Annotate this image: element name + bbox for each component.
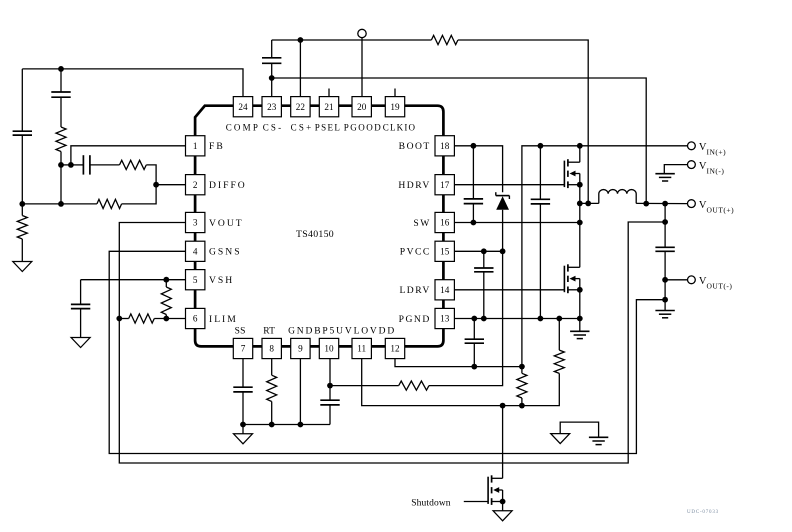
- wire VOUT node down: [664, 204, 666, 248]
- svg-text:PVCC: PVCC: [400, 247, 431, 258]
- junction gnd bus SS (243,424.5): [240, 422, 246, 428]
- svg-text:21: 21: [324, 102, 334, 112]
- pin 7 box: [233, 338, 252, 358]
- junction PGND/R-uvlo2 (559.3,318.5): [556, 316, 562, 322]
- svg-text:11: 11: [357, 344, 366, 354]
- junction PVCC/C-pvcc (483.8,251.3): [481, 248, 487, 254]
- wire CS+ net A horizontal: [272, 39, 432, 41]
- svg-text:12: 12: [390, 344, 400, 354]
- pin 24 box: [233, 97, 252, 117]
- junction VOUT(-) (665.1,279.8): [662, 277, 668, 283]
- pin 20 box: [352, 97, 371, 117]
- pin 14 box: [435, 280, 454, 300]
- inductor L1: [599, 190, 636, 204]
- svg-text:LDRV: LDRV: [399, 285, 430, 296]
- wire net A to SW node via right descent: [458, 40, 588, 203]
- resistor R-vsh-ilim: [161, 280, 171, 319]
- IC U1 TS40150 body outline: [195, 106, 443, 347]
- junction gnd bus GND (300.4,424.5): [298, 422, 304, 428]
- wire pin23 CS- stub: [271, 78, 273, 97]
- svg-text:PGOOD: PGOOD: [344, 122, 383, 132]
- wire BOOT pin18 right then down to diode: [454, 146, 502, 192]
- terminal VIN(-): [688, 161, 696, 169]
- ground arrow of tie: [551, 434, 570, 444]
- pin 6 box: [186, 308, 205, 328]
- wire LDRV pin14 to Q2 gate: [454, 289, 564, 291]
- wire pin22 CS+ stub: [299, 40, 301, 97]
- svg-text:COMP: COMP: [226, 122, 260, 132]
- junction at (22.3,203.9): [19, 201, 25, 207]
- wire Q2 source down to PGND: [579, 290, 581, 319]
- wire Q1 source down to SW node: [579, 185, 581, 223]
- wire COMP pin24 up and left to compensation network: [22, 69, 243, 97]
- junction VDD/C-vdd (474.3,366.6): [471, 364, 477, 370]
- wire VDD pin12 down and right: [395, 358, 522, 366]
- junction ILIM (166.3,318.5): [163, 316, 169, 322]
- junction PGND/C-pvcc (483.8,318.5): [481, 316, 487, 322]
- pin 18 box: [435, 136, 454, 156]
- svg-text:GNDBP5UVLOVDD: GNDBP5UVLOVDD: [288, 326, 396, 336]
- svg-text:13: 13: [440, 314, 450, 324]
- wire SW to inductor: [580, 202, 599, 204]
- pin 21 box: [319, 97, 338, 117]
- capacitor C-cs between CS+ and CS-: [262, 40, 281, 78]
- capacitor C-ss: [233, 358, 252, 424]
- svg-text:16: 16: [440, 218, 450, 228]
- junction SW/inductor (579.8,203.4): [577, 201, 583, 207]
- svg-text:8: 8: [269, 344, 274, 354]
- svg-text:GSNS: GSNS: [209, 247, 242, 258]
- wire VOUT(-) terminal link: [665, 279, 687, 281]
- wire pin20 PGOOD to test point: [361, 38, 363, 97]
- wire DIFFO pin2 to feedback junction: [156, 184, 185, 186]
- pin 17 box: [435, 175, 454, 195]
- pin 23 box: [262, 97, 281, 117]
- junction at (61,164.9): [58, 162, 64, 168]
- svg-text:5: 5: [193, 275, 198, 285]
- pin 19 box: [385, 97, 404, 117]
- junction at transistor Q1 high-side NMOS source junction: [577, 182, 583, 188]
- svg-text:7: 7: [241, 344, 246, 354]
- junction at (61,203.9): [58, 201, 64, 207]
- svg-text:BOOT: BOOT: [399, 141, 431, 152]
- ground arrow under Q3: [493, 511, 512, 521]
- wire UVLO pin11 down and right: [362, 358, 560, 405]
- wire SW pin16 to switch node: [454, 222, 579, 224]
- svg-text:23: 23: [267, 102, 277, 112]
- junction VOUT(-) sense (665.1,299.7): [662, 297, 668, 303]
- pin 16 box: [435, 212, 454, 232]
- junction UVLO/R-uvlo1 (521.9,405.6): [519, 403, 525, 409]
- wire BP5 pin10 stub: [329, 358, 331, 385]
- wire pin19 CLKIO stub: [394, 89, 396, 98]
- earth ground VOUT(-): [655, 311, 674, 318]
- resistor R-uvlo2 PGND to UVLO: [554, 319, 564, 374]
- svg-text:24: 24: [238, 102, 248, 112]
- wire HDRV pin17 to Q1 gate: [454, 184, 564, 186]
- svg-text:9: 9: [298, 344, 303, 354]
- earth ground of tie: [589, 437, 608, 444]
- resistor R-fb2 parallel branch: [22, 199, 121, 208]
- resistor R-fb series: [120, 160, 147, 169]
- transistor Q1 high-side NMOS: [564, 159, 579, 188]
- svg-text:UDC-07033: UDC-07033: [687, 510, 719, 515]
- svg-text:Shutdown: Shutdown: [411, 498, 450, 508]
- resistor R-ilim: [119, 314, 185, 323]
- svg-text:HDRV: HDRV: [398, 180, 430, 191]
- ground arrow under R-comp: [13, 262, 32, 272]
- capacitor C-vsh: [71, 280, 90, 338]
- wire Shutdown input to Q3 gate: [464, 501, 488, 503]
- svg-text:15: 15: [440, 247, 450, 257]
- capacitor C-pvcc: [474, 251, 493, 318]
- svg-text:FB: FB: [209, 141, 225, 152]
- transistor Q2 low-side NMOS: [564, 264, 579, 293]
- pin 2 box: [186, 175, 205, 195]
- capacitor C-bp5: [320, 386, 339, 425]
- wire Q2 drain up to SW: [579, 223, 581, 268]
- terminal VIN(+): [688, 142, 696, 150]
- svg-text:CS+: CS+: [291, 122, 314, 132]
- wire VIN rail from x522 riser to VIN(+) terminal: [522, 146, 688, 367]
- wire x61 vertical from R-comp2 down through FB node to lower branch: [60, 165, 62, 204]
- pin 22 box: [291, 97, 310, 117]
- svg-text:20: 20: [357, 102, 367, 112]
- svg-text:PGND: PGND: [399, 314, 431, 325]
- junction CS sense at inductor left (588.2,203.4): [585, 201, 591, 207]
- svg-text:1: 1: [193, 141, 198, 151]
- wire PVCC riser down to BP5 line: [429, 251, 503, 385]
- junction VIN/Q1 drain (579.8,145.8): [577, 143, 583, 149]
- wire VSH pin5 left: [81, 279, 186, 281]
- wire FB pin1 left and down to FB node: [71, 146, 186, 165]
- junction FB chain top at (61,68.9): [58, 66, 64, 72]
- junction VOUT node CS- (646.2,203.6): [643, 201, 649, 207]
- wire pin21 PSEL stub: [328, 89, 330, 98]
- junction CS+ pin22 (300.4,40): [298, 37, 304, 43]
- resistor R-comp2 below C-comp2: [56, 97, 66, 165]
- junction DIFFO node (156.1,184.7): [153, 182, 159, 188]
- wire inductor to VOUT(+) terminal: [636, 202, 687, 204]
- pin 4 box: [186, 241, 205, 261]
- pin 13 box: [435, 308, 454, 328]
- wire PVCC pin15 right: [454, 250, 502, 252]
- pin 8 box: [262, 338, 281, 358]
- pin 3 box: [186, 212, 205, 232]
- wire Q1 drain up to VIN rail: [579, 146, 581, 162]
- svg-text:PSEL: PSEL: [315, 122, 342, 132]
- terminal VOUT(+): [688, 200, 696, 208]
- junction VOUT sense (665.1,222): [662, 219, 668, 225]
- wire PGND pin13 to power ground: [454, 318, 579, 320]
- resistor R-cs filter: [431, 35, 458, 44]
- wire shutdown drain riser: [502, 406, 504, 479]
- junction CS- pin23 (271.7,78): [269, 75, 275, 81]
- svg-text:19: 19: [390, 102, 400, 112]
- junction at transistor Q3 shutdown NMOS source junction: [500, 499, 506, 505]
- resistor R-rt: [267, 358, 277, 424]
- resistor R-comp lower to ground: [17, 204, 27, 262]
- junction BOOT/C-boot (473.4,145.8): [471, 143, 477, 149]
- ground arrow analog gnd: [234, 434, 253, 444]
- wire GND pin9 down: [299, 358, 301, 424]
- terminal VOUT(-): [688, 276, 696, 284]
- svg-text:14: 14: [440, 285, 450, 295]
- svg-text:VSH: VSH: [209, 275, 234, 286]
- wire analog ground bus: [243, 424, 330, 426]
- junction VOUT node C-out (665.1,203.6): [662, 201, 668, 207]
- capacitor C-out: [655, 247, 674, 310]
- svg-text:VOUT: VOUT: [209, 218, 244, 229]
- junction PGND/Q2 source (579.8,318.5): [577, 316, 583, 322]
- ground arrow under C-vsh: [71, 338, 90, 348]
- pin 1 box: [186, 136, 205, 156]
- pin 10 box: [319, 338, 338, 358]
- resistor R-bp5: [330, 381, 429, 390]
- junction SW node (579.8,222.5): [577, 220, 583, 226]
- junction gnd bus RT (271.7,424.5): [269, 422, 275, 428]
- capacitor C-comp1 (COMP to FB divider, left outer): [13, 69, 32, 204]
- earth ground at PGND: [570, 331, 589, 338]
- capacitor C-fb series: [71, 155, 120, 174]
- capacitor C-comp2 (COMP chain x61): [51, 69, 70, 97]
- junction PVCC/diode (502.6,251.3): [500, 248, 506, 254]
- wire GSNS pin4 sense loop to output return: [109, 251, 665, 453]
- pin 9 box: [291, 338, 310, 358]
- svg-text:RT: RT: [263, 326, 275, 336]
- junction FB node (70.9,164.9): [68, 162, 74, 168]
- wire CS- net B to VOUT node: [272, 78, 647, 204]
- svg-text:2: 2: [193, 180, 198, 190]
- junction at transistor Q2 low-side NMOS source junction: [577, 287, 583, 293]
- junction ILIM to VOUT sense (119.3,318.5): [116, 316, 122, 322]
- junction VIN/C-vin (540.4,145.8): [538, 143, 544, 149]
- svg-text:SW: SW: [413, 218, 430, 229]
- svg-text:4: 4: [193, 247, 198, 257]
- capacitor C-boot: [464, 146, 483, 223]
- wire from R-fb2 to DIFFO node: [122, 185, 157, 204]
- svg-text:17: 17: [440, 180, 450, 190]
- svg-text:CLKIO: CLKIO: [383, 122, 417, 132]
- junction UVLO/shutdown (502.6,405.6): [500, 403, 506, 409]
- wire Q3 source to ground: [502, 502, 504, 511]
- wire diode anode to PVCC: [502, 210, 504, 252]
- wire gnd bus to arrow: [242, 425, 244, 434]
- diode D-boot schottky: [496, 192, 510, 210]
- pin 5 box: [186, 270, 205, 290]
- junction SW/C-boot (473.4,222.5): [471, 220, 477, 226]
- wire FB node short link: [61, 164, 71, 166]
- svg-text:10: 10: [324, 344, 334, 354]
- svg-text:SS: SS: [235, 326, 246, 336]
- terminal circle PGOOD test point: [358, 29, 366, 37]
- svg-text:ILIM: ILIM: [209, 314, 238, 325]
- svg-text:6: 6: [193, 314, 198, 324]
- pin 11 box: [352, 338, 371, 358]
- svg-text:22: 22: [296, 102, 306, 112]
- junction PGND/C-vin (540.4,318.5): [538, 316, 544, 322]
- capacitor C-vdd: [465, 319, 484, 367]
- junction VSH (166.3,279.7): [163, 277, 169, 283]
- wire ground tie bracket: [560, 422, 598, 437]
- junction BP5 pin10 (330,385.6): [327, 383, 333, 389]
- capacitor C-vin bypass: [531, 146, 550, 319]
- wire PGND to earth symbol: [579, 319, 581, 332]
- earth ground VIN(-): [655, 174, 674, 181]
- wire VOUT pin3 sense loop to output terminal: [119, 222, 665, 463]
- wire from R-fb to DIFFO node: [146, 165, 156, 185]
- wire VIN(-) to earth: [664, 165, 687, 174]
- pin 12 box: [385, 338, 404, 358]
- resistor R-uvlo1 VDD to UVLO: [517, 367, 527, 406]
- junction VDD/VIN riser (521.9,366.6): [519, 364, 525, 370]
- svg-text:3: 3: [193, 218, 198, 228]
- svg-text:CS-: CS-: [263, 122, 284, 132]
- junction PGND/C-vdd (474.3,318.5): [471, 316, 477, 322]
- svg-text:18: 18: [440, 141, 450, 151]
- pin 15 box: [435, 241, 454, 261]
- transistor Q3 shutdown NMOS: [488, 475, 503, 505]
- svg-text:DIFFO: DIFFO: [209, 180, 247, 191]
- svg-text:TS40150: TS40150: [296, 229, 334, 240]
